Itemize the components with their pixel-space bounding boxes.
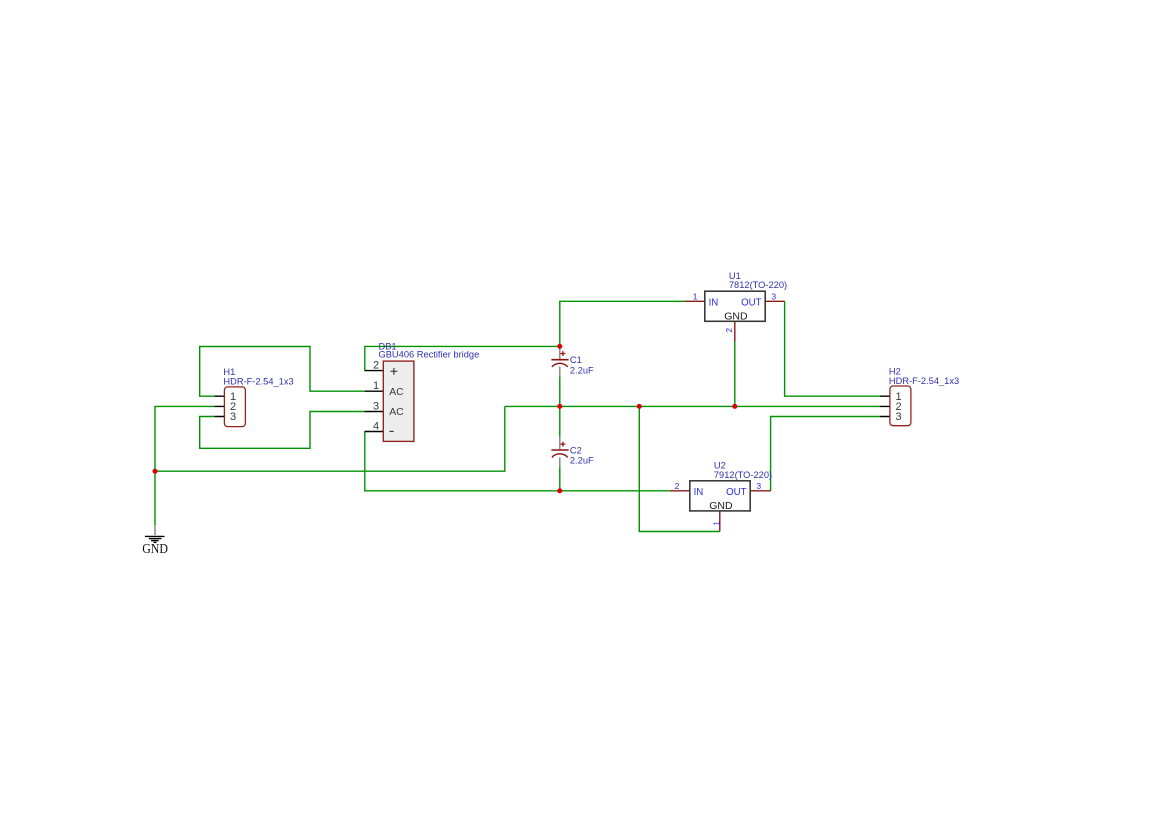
H1 body — [224, 387, 245, 427]
svg-text:HDR-F-2.54_1x3: HDR-F-2.54_1x3 — [889, 376, 959, 386]
wire GND rail horizontal — [155, 406, 505, 471]
regulator U2 — [670, 461, 772, 532]
C2 plus plate — [551, 449, 568, 451]
U1 body — [705, 291, 765, 321]
C2 bottom lead — [559, 458, 561, 468]
svg-text:GND: GND — [142, 541, 168, 556]
wire U1.3 to H2.1 — [785, 301, 880, 396]
U1 pin 1 stub — [685, 300, 705, 302]
DB1 plus pin name — [391, 368, 398, 375]
svg-text:C1: C1 — [570, 355, 582, 365]
wire C1 bottom to rail — [559, 377, 561, 407]
wire rail to C2 top — [559, 406, 561, 436]
svg-text:AC: AC — [389, 407, 404, 418]
svg-text:2: 2 — [373, 360, 379, 372]
svg-text:7912(TO-220): 7912(TO-220) — [714, 470, 772, 480]
svg-text:GBU406 Rectifier bridge: GBU406 Rectifier bridge — [379, 350, 480, 360]
H2 body — [890, 386, 911, 426]
junction rail at C1 — [557, 404, 562, 409]
U1 pin 3 stub — [765, 300, 784, 302]
svg-text:3: 3 — [896, 411, 902, 423]
header H2 — [880, 367, 959, 426]
capacitor C2 — [551, 437, 594, 468]
H2 pin stubs — [880, 396, 890, 416]
U2 body — [690, 481, 750, 511]
C1 plus plate — [551, 359, 568, 361]
wire H1.1 to DB1.1 — [200, 347, 365, 397]
junction C1 top node — [557, 344, 562, 349]
junction GND node left — [153, 469, 158, 474]
wire H1.2 to GND node — [155, 406, 215, 525]
svg-text:2.2uF: 2.2uF — [570, 365, 594, 375]
U2 pin 3 stub — [750, 490, 770, 492]
U2 pin 1 stub — [719, 511, 721, 532]
svg-text:OUT: OUT — [741, 297, 762, 308]
svg-text:3: 3 — [373, 401, 379, 413]
svg-text:IN: IN — [709, 297, 719, 308]
svg-text:4: 4 — [373, 421, 379, 433]
wire U1.1 to C1 node — [560, 301, 685, 346]
svg-text:GND: GND — [709, 500, 733, 512]
svg-text:IN: IN — [694, 487, 704, 498]
DB1 pin stubs — [365, 371, 384, 432]
ground stub — [154, 526, 156, 535]
svg-text:2: 2 — [724, 328, 734, 333]
C1 polarity plus — [561, 351, 566, 356]
svg-text:1: 1 — [712, 521, 722, 526]
svg-text:OUT: OUT — [726, 487, 747, 498]
svg-text:7812(TO-220): 7812(TO-220) — [729, 280, 787, 290]
wire DB1.4 to C2 bottom to U2.2 — [365, 432, 670, 491]
svg-text:3: 3 — [230, 411, 236, 423]
junction rail at U2 branch — [637, 404, 642, 409]
DB1 body — [383, 361, 414, 441]
wire mid rail — [505, 405, 880, 407]
C2 curved plate — [552, 454, 568, 458]
C1 top lead — [559, 349, 561, 360]
DB1 minus pin name — [390, 430, 394, 432]
wire DB1.2 to C1 top — [365, 346, 560, 370]
ground bar 4 — [154, 541, 157, 543]
wire H1.3 to DB1.3 — [200, 412, 365, 449]
svg-text:3: 3 — [756, 481, 761, 491]
C2 polarity plus — [561, 442, 566, 447]
ground bar 1 — [145, 535, 165, 537]
svg-text:3: 3 — [771, 291, 776, 301]
svg-text:AC: AC — [389, 387, 404, 398]
junction C2 bottom node — [557, 488, 562, 493]
svg-text:1: 1 — [373, 380, 379, 392]
C1 curved plate — [552, 363, 568, 367]
C1 bottom lead — [559, 367, 561, 377]
regulator U1 — [685, 271, 787, 342]
capacitor C1 — [551, 349, 594, 377]
wire rail to U2.1 — [639, 406, 720, 531]
svg-text:1: 1 — [693, 291, 698, 301]
ground symbol — [142, 526, 168, 556]
junction rail at U1 GND — [732, 404, 737, 409]
header H1 — [215, 367, 294, 427]
U1 pin 2 stub — [734, 321, 736, 341]
svg-text:HDR-F-2.54_1x3: HDR-F-2.54_1x3 — [223, 376, 293, 386]
C2 top lead — [559, 437, 561, 450]
rectifier bridge DB1 — [365, 341, 480, 441]
U2 pin 2 stub — [670, 490, 690, 492]
svg-text:2: 2 — [675, 481, 680, 491]
H1 pin stubs — [215, 396, 225, 416]
svg-text:GND: GND — [724, 310, 748, 322]
ground bar 3 — [151, 540, 159, 542]
wire U1.2 to rail — [734, 342, 736, 407]
wire C2 bottom to node — [559, 467, 561, 491]
svg-text:C2: C2 — [570, 446, 582, 456]
wire U2.3 to H2.3 — [771, 417, 880, 491]
ground bar 2 — [149, 538, 162, 540]
svg-text:2.2uF: 2.2uF — [570, 456, 594, 466]
